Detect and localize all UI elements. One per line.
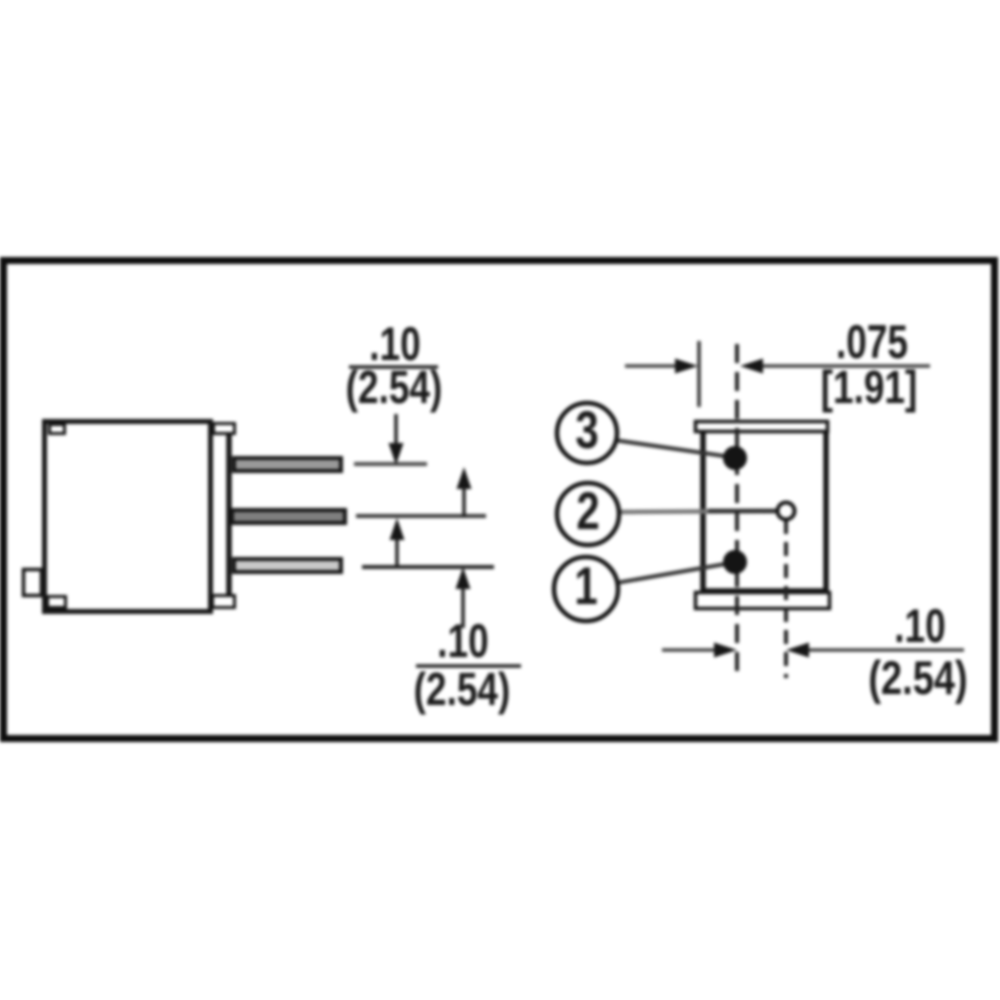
svg-text:3: 3 <box>575 402 598 461</box>
svg-text:(2.54): (2.54) <box>868 652 967 705</box>
svg-text:(2.54): (2.54) <box>414 663 511 715</box>
svg-text:.10: .10 <box>437 616 488 668</box>
svg-text:.10: .10 <box>894 601 945 653</box>
svg-text:[1.91]: [1.91] <box>821 361 918 413</box>
svg-text:1: 1 <box>574 558 597 617</box>
svg-text:2: 2 <box>576 483 599 542</box>
svg-text:(2.54): (2.54) <box>346 361 443 413</box>
